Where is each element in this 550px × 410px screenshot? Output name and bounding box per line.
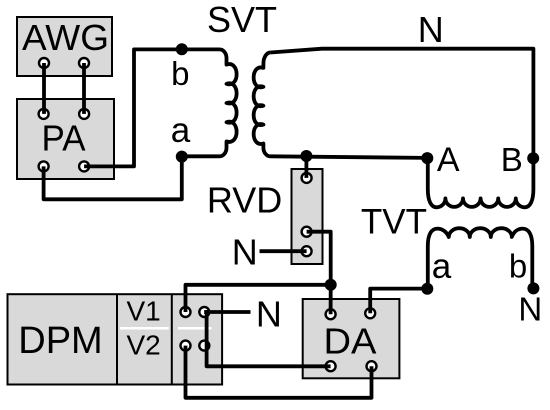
- svg-text:N: N: [232, 232, 258, 273]
- svg-text:RVD: RVD: [207, 179, 282, 220]
- svg-text:SVT: SVT: [207, 0, 277, 40]
- svg-text:b: b: [171, 55, 189, 92]
- svg-text:N: N: [518, 291, 542, 328]
- svg-text:A: A: [437, 141, 460, 179]
- svg-text:N: N: [418, 9, 444, 50]
- svg-text:TVT: TVT: [361, 203, 427, 242]
- svg-text:DPM: DPM: [18, 320, 102, 362]
- svg-text:PA: PA: [42, 118, 86, 159]
- svg-text:AWG: AWG: [22, 17, 109, 58]
- svg-text:V1: V1: [126, 296, 160, 327]
- svg-text:B: B: [501, 141, 523, 178]
- svg-text:a: a: [432, 247, 452, 286]
- svg-text:DA: DA: [324, 320, 377, 361]
- svg-text:V2: V2: [126, 330, 160, 361]
- svg-text:N: N: [256, 293, 282, 334]
- svg-text:b: b: [509, 248, 527, 285]
- svg-text:a: a: [171, 111, 191, 150]
